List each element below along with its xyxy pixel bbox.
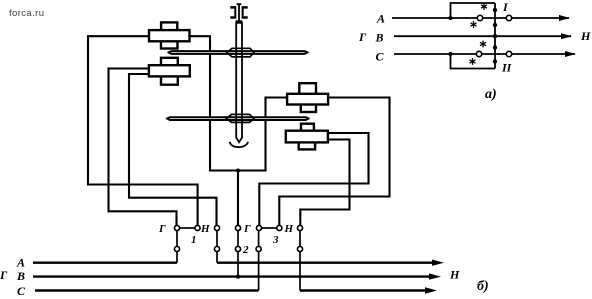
svg-text:Г: Г [0, 268, 8, 282]
svg-text:Н: Н [580, 29, 591, 43]
svg-text:А: А [376, 12, 385, 26]
svg-text:Н: Н [449, 268, 460, 282]
svg-text:3: 3 [272, 234, 279, 246]
svg-text:2: 2 [242, 244, 249, 256]
svg-text:Н: Н [200, 223, 210, 235]
svg-text:Г: Г [158, 223, 166, 235]
svg-text:С: С [376, 50, 385, 64]
svg-text:б): б) [477, 279, 489, 294]
svg-text:1: 1 [191, 234, 197, 246]
svg-text:С: С [17, 284, 26, 298]
svg-text:Г: Г [243, 223, 251, 235]
svg-text:Г: Г [358, 30, 367, 44]
svg-text:А: А [16, 256, 25, 270]
svg-text:В: В [16, 269, 25, 283]
svg-text:forca.ru: forca.ru [9, 8, 44, 19]
svg-text:В: В [375, 31, 384, 45]
svg-text:Н: Н [284, 223, 294, 235]
svg-text:II: II [501, 61, 513, 75]
svg-text:а): а) [485, 87, 497, 102]
